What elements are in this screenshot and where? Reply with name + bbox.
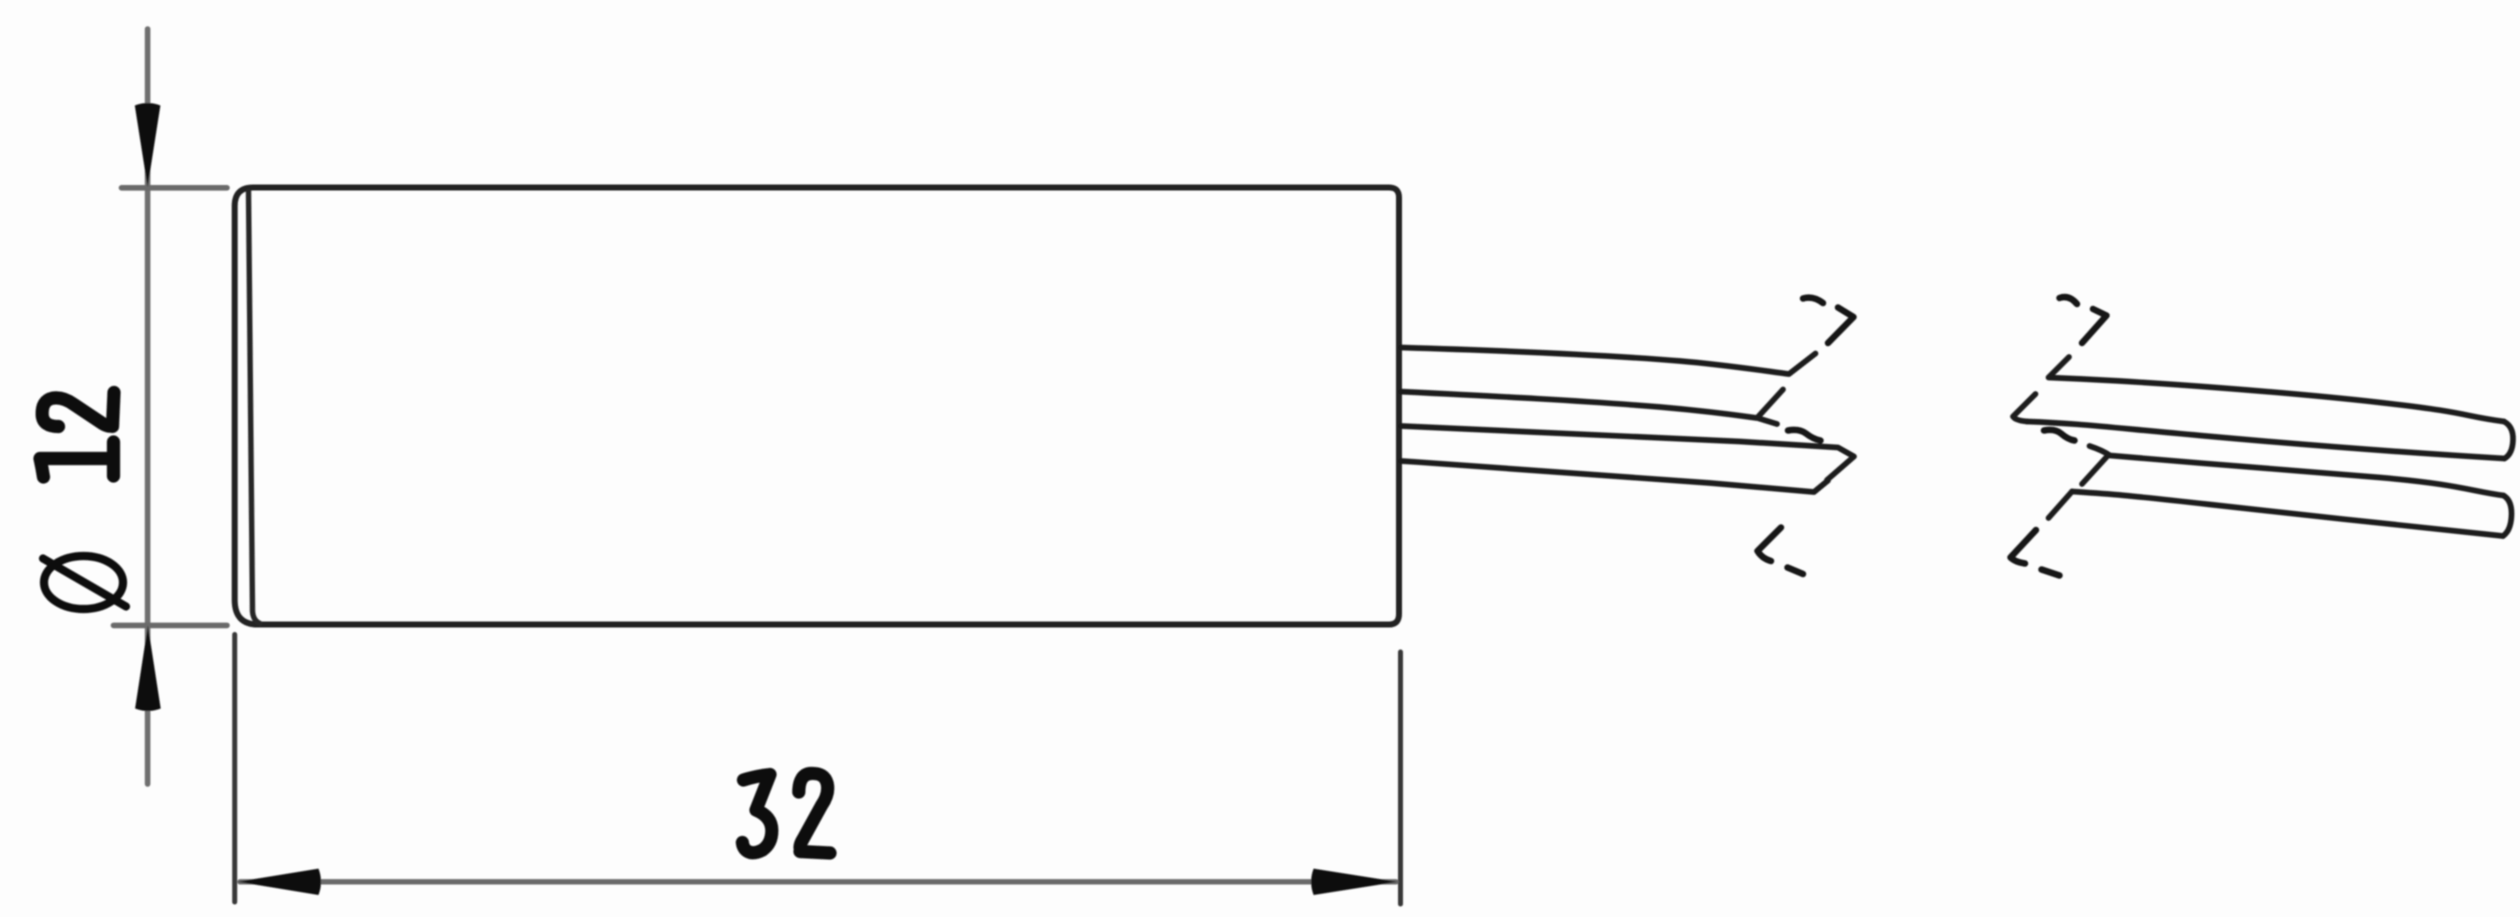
dimension 32: right arrowhead	[1311, 869, 1397, 895]
laser module body (cylinder side view outline)	[235, 188, 1399, 625]
front face chamfer line	[249, 191, 261, 624]
break symbol left: top dash	[1803, 298, 1823, 303]
break symbol right: bottom dash	[2042, 570, 2060, 576]
dimension Ø12: vertical dimension line	[145, 29, 151, 784]
dimension 32: right extension line	[1398, 652, 1403, 904]
dimension text Ø (rotated)	[43, 556, 126, 609]
break symbol left: bottom chevron	[1758, 528, 1782, 562]
wire pair right segment: upper wire left arrow tip	[2013, 394, 2036, 422]
wire pair right segment: upper wire top line	[2049, 357, 2505, 422]
dimension 32: horizontal dimension line	[240, 879, 1396, 884]
wire pair right segment: upper wire end cap	[2504, 422, 2513, 459]
wire 4 (bottom lead, left segment)	[1401, 461, 1828, 492]
wire pair right segment: lower wire top line with start hook	[2090, 446, 2504, 496]
break symbol right: middle tilde dash	[2044, 430, 2075, 441]
wire 2 (second lead, left segment)	[1401, 390, 1783, 425]
wire pair right segment: lower wire end cap	[2503, 496, 2512, 537]
dimension Ø12: top extension line	[122, 185, 228, 191]
wire 1 (top lead, left segment)	[1401, 348, 1816, 375]
wire pair right segment: lower wire start diagonal	[2082, 457, 2107, 485]
break symbol left: top chevron	[1828, 308, 1854, 344]
dimension Ø12: down arrowhead	[135, 103, 161, 187]
dimension text 2 of 12 (rotated)	[42, 393, 114, 427]
wire pair right segment: lower wire bottom start diagonal	[2049, 492, 2073, 519]
wire 3 (third lead, left segment)	[1401, 426, 1854, 480]
wire pair right segment: lower wire bottom line	[2072, 492, 2503, 537]
break symbol right: top chevron	[2082, 309, 2107, 343]
dimension 32: left arrowhead	[238, 869, 321, 895]
dimension 32: left extension line	[232, 635, 237, 903]
break symbol left: middle tilde dash	[1788, 430, 1821, 441]
dimension text 2 of 32	[799, 773, 830, 853]
break symbol right: top dash	[2060, 297, 2078, 304]
break symbol right: bottom chevron	[2011, 530, 2037, 564]
wire pair right segment: upper wire bottom line	[2027, 422, 2505, 459]
break symbol left: bottom dash	[1788, 568, 1804, 575]
dimension text 1 (rotated)	[40, 442, 114, 477]
dimension Ø12: up arrowhead	[135, 626, 161, 712]
dimension Ø12: bottom extension line	[114, 623, 228, 629]
dimension text 3 of 32	[742, 775, 771, 853]
